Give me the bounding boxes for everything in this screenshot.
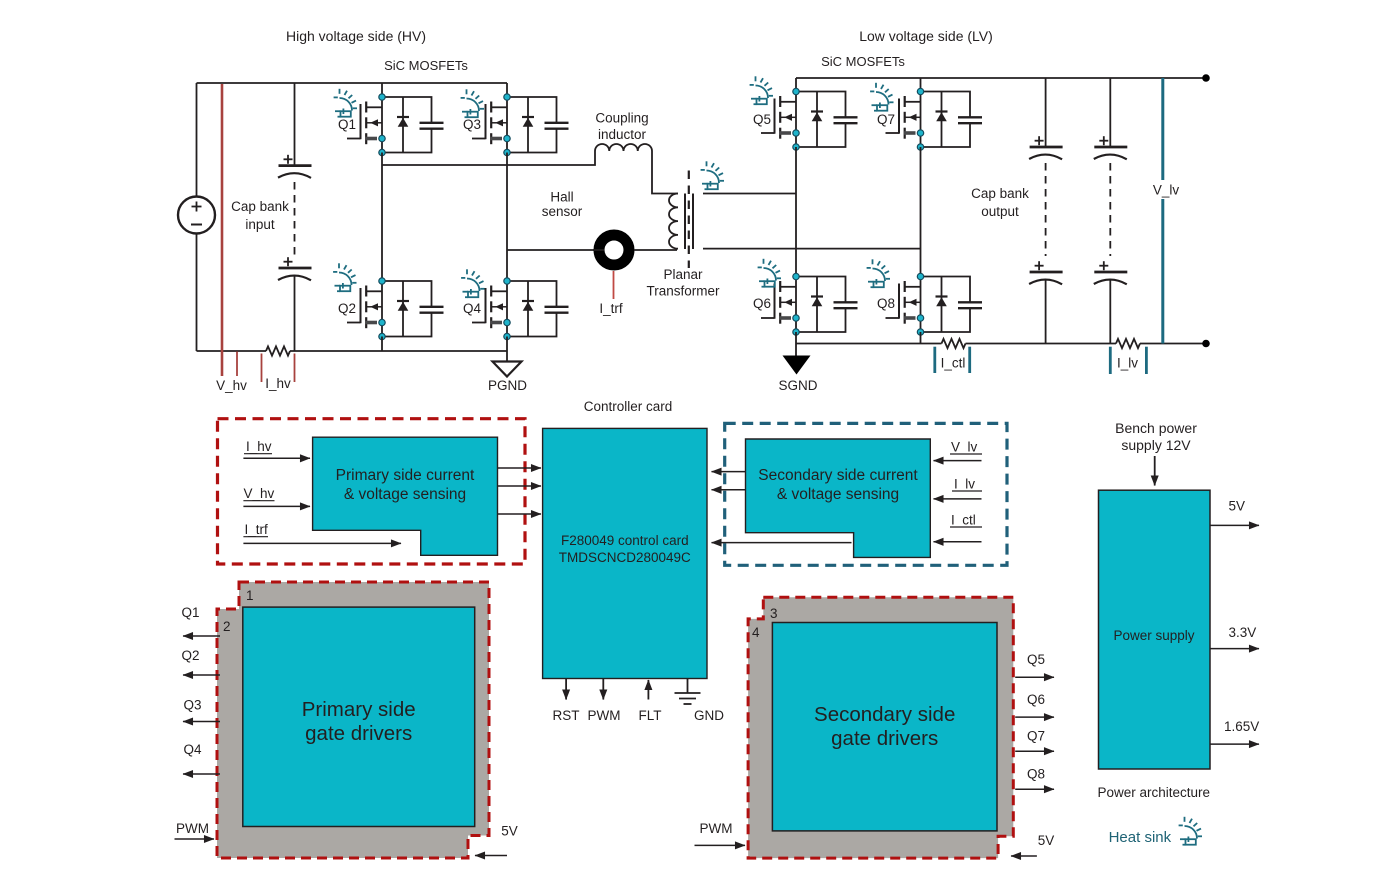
svg-text:V_lv: V_lv	[1153, 183, 1180, 198]
wire source bottom lead	[196, 234, 198, 352]
heat sink icon transformer	[701, 161, 724, 189]
svg-text:Q4: Q4	[463, 301, 482, 316]
wire cap output branch1 bottom lead	[1045, 279, 1047, 344]
transistor Q7	[886, 88, 983, 150]
svg-text:gate drivers: gate drivers	[831, 727, 938, 750]
svg-text:Controller card: Controller card	[584, 399, 673, 414]
block secondary side gate drivers	[772, 623, 997, 831]
transistor Q6	[761, 273, 858, 335]
svg-text:Transformer: Transformer	[646, 284, 720, 299]
svg-text:Q7: Q7	[1027, 729, 1045, 744]
heat sink icon Q4	[461, 269, 484, 297]
label V_lv	[1148, 180, 1185, 199]
capacitor C_in1	[278, 155, 312, 178]
wire HV bottom rail right of shunt	[290, 350, 507, 352]
label I_hv input	[244, 439, 272, 454]
svg-text:gate drivers: gate drivers	[305, 722, 412, 745]
wire secondary sensing output arrow 2	[712, 489, 746, 491]
svg-text:Q3: Q3	[463, 117, 481, 132]
pin FLT	[639, 680, 662, 723]
transistor Q5	[761, 88, 858, 150]
svg-text:Primary side: Primary side	[302, 698, 416, 721]
svg-text:5V: 5V	[1229, 499, 1246, 514]
wire primary sensing output arrow 3	[498, 513, 542, 515]
heat sink icon Q5	[750, 76, 773, 104]
wire secondary bottom	[703, 248, 921, 250]
wire cap bank input bottom lead	[294, 275, 296, 351]
pin PWM input secondary	[695, 821, 746, 845]
node V_hv return tap (red)	[236, 352, 238, 377]
node I_hv tap left (red)	[261, 354, 263, 383]
svg-text:Q8: Q8	[877, 296, 895, 311]
capacitor cap bank input top lead	[294, 83, 296, 165]
wire I_hv input arrow	[243, 457, 310, 459]
pin Q2 gate output	[181, 648, 220, 675]
wire hall to bottom wire left	[594, 249, 604, 251]
svg-text:I_ctl: I_ctl	[941, 356, 966, 371]
svg-text:I_hv: I_hv	[246, 439, 272, 454]
svg-text:Q4: Q4	[183, 742, 202, 757]
pin 5V input secondary	[1011, 833, 1054, 856]
svg-text:Q5: Q5	[1027, 652, 1045, 667]
svg-text:& voltage sensing: & voltage sensing	[344, 486, 466, 503]
block primary side current and voltage sensing	[313, 437, 498, 555]
svg-text:Planar: Planar	[663, 267, 703, 282]
boundary secondary sensing (blue dashed)	[725, 423, 1007, 565]
svg-text:Secondary side current: Secondary side current	[758, 467, 918, 484]
node LV bottom terminal dot	[1202, 340, 1210, 348]
svg-text:& voltage sensing: & voltage sensing	[777, 486, 899, 503]
svg-text:5V: 5V	[1038, 833, 1055, 848]
svg-text:SiC MOSFETs: SiC MOSFETs	[384, 58, 468, 73]
svg-text:Power architecture: Power architecture	[1098, 785, 1211, 800]
wire V_lv input arrow	[934, 460, 982, 462]
pin 5V input primary	[475, 824, 518, 856]
wire HV bridge midpoint to coupling inductor	[382, 151, 595, 165]
pin PWM	[588, 679, 621, 723]
svg-text:Cap bank: Cap bank	[231, 199, 289, 214]
svg-text:1.65V: 1.65V	[1224, 719, 1259, 734]
heat sink icon Q2	[333, 263, 356, 291]
node I_lv tap left (teal)	[1109, 347, 1112, 374]
svg-text:High voltage side (HV): High voltage side (HV)	[286, 28, 426, 44]
svg-text:Q2: Q2	[181, 648, 199, 663]
wire I_lv input arrow	[934, 498, 982, 500]
svg-text:PWM: PWM	[588, 708, 621, 723]
wire bench supply arrow	[1154, 456, 1156, 486]
svg-text:5V: 5V	[501, 824, 518, 839]
wire LV bottom rail middle	[966, 343, 1117, 345]
svg-text:I_ctl: I_ctl	[951, 513, 976, 528]
wire I_ctl input arrow	[934, 541, 982, 543]
svg-text:Q6: Q6	[1027, 692, 1045, 707]
svg-text:sensor: sensor	[542, 204, 583, 219]
transistor Q3	[472, 94, 569, 156]
svg-text:FLT: FLT	[639, 708, 662, 723]
node I_ctl tap right (teal)	[968, 347, 971, 373]
pin 1.65V output	[1210, 719, 1259, 744]
wire LV top rail	[796, 77, 1206, 79]
svg-text:Secondary side: Secondary side	[814, 703, 955, 726]
pin Q5 gate output	[1015, 652, 1054, 677]
capacitor C_o2	[1029, 261, 1063, 284]
pin Q3 gate output	[183, 698, 220, 722]
svg-text:PWM: PWM	[700, 821, 733, 836]
heat sink icon Q3	[461, 89, 484, 117]
transistor Q4	[472, 278, 569, 340]
capacitor C_o4	[1094, 261, 1128, 284]
svg-text:Q5: Q5	[753, 112, 771, 127]
svg-text:output: output	[981, 204, 1019, 219]
wire primary sensing output arrow 2	[498, 485, 542, 487]
pin Q1 gate output	[181, 605, 220, 636]
resistor I_lv shunt	[1116, 339, 1140, 348]
block secondary side current and voltage sensing	[746, 439, 931, 557]
wire Q8 source to rail	[920, 332, 922, 344]
wire Q7-Q8 leg	[920, 147, 922, 277]
pin Q6 gate output	[1015, 692, 1054, 717]
capacitor cap bank output branch1 top lead	[1045, 78, 1047, 147]
svg-text:I_trf: I_trf	[245, 522, 269, 537]
svg-text:Coupling: Coupling	[595, 111, 648, 126]
node LV top terminal dot	[1202, 74, 1210, 82]
svg-text:TMDSCNCD280049C: TMDSCNCD280049C	[559, 550, 691, 565]
boundary secondary gate drivers (red dashed)	[748, 597, 1013, 858]
label I_ctl input	[950, 513, 982, 528]
wire LV bottom rail right	[1140, 343, 1206, 345]
wire I_trf input arrow	[243, 542, 401, 544]
wire cap output branch2 dashed	[1109, 163, 1111, 256]
wire Q4 source to rail	[506, 337, 508, 352]
heat sink icon Q7	[870, 83, 893, 111]
node V_lv sense line (teal)	[1161, 78, 1164, 344]
wire secondary sensing output arrow 3	[712, 542, 852, 544]
block power supply	[1099, 490, 1211, 769]
block primary side gate drivers	[243, 607, 475, 826]
sensor hall (toroid)	[599, 235, 629, 265]
svg-text:V_hv: V_hv	[244, 486, 275, 501]
svg-text:SGND: SGND	[778, 378, 817, 393]
svg-text:Hall: Hall	[550, 190, 573, 205]
pin 5V output	[1210, 499, 1259, 526]
label V_hv input	[243, 486, 274, 501]
pin RST	[553, 679, 580, 723]
wire cap output branch1 dashed	[1045, 163, 1047, 256]
svg-text:I_lv: I_lv	[1117, 356, 1138, 371]
wire Q1 drain stub	[381, 83, 383, 97]
svg-text:Power supply: Power supply	[1113, 628, 1194, 643]
wire source top lead	[196, 83, 198, 197]
resistor I_hv shunt	[266, 346, 290, 355]
svg-text:I_hv: I_hv	[265, 376, 291, 391]
heat sink icon Q8	[867, 259, 890, 287]
svg-text:Bench power: Bench power	[1115, 420, 1197, 436]
label V_lv input	[950, 440, 982, 455]
transistor Q8	[886, 273, 983, 335]
board primary gate drivers card stack	[217, 582, 489, 858]
label I_lv input	[952, 477, 982, 492]
svg-text:I_trf: I_trf	[599, 301, 623, 316]
ground SGND	[783, 344, 811, 375]
svg-text:Cap bank: Cap bank	[971, 186, 1029, 201]
wire V_hv input arrow	[243, 505, 310, 507]
transformer T1 primary winding	[669, 194, 678, 249]
wire secondary sensing output arrow 1	[712, 471, 746, 473]
wire Q6 source to rail	[795, 332, 797, 344]
svg-text:Low voltage side (LV): Low voltage side (LV)	[859, 28, 993, 44]
svg-text:Heat sink: Heat sink	[1109, 829, 1172, 846]
svg-text:Q6: Q6	[753, 296, 771, 311]
svg-text:Q1: Q1	[181, 605, 199, 620]
wire Q7 drain stub	[920, 78, 922, 92]
wire primary sensing output arrow 1	[498, 467, 542, 469]
svg-text:4: 4	[752, 625, 760, 640]
svg-text:2: 2	[223, 619, 231, 634]
wire Q2 source to rail	[381, 337, 383, 352]
wire HV top rail	[197, 82, 508, 84]
node I_lv tap right (teal)	[1145, 347, 1148, 374]
svg-text:inductor: inductor	[598, 127, 647, 142]
label I_trf input	[243, 522, 268, 537]
ground GND pin	[675, 679, 725, 723]
svg-text:1: 1	[246, 588, 254, 603]
wire Q5 drain stub	[795, 78, 797, 92]
pin PWM input primary	[175, 821, 215, 839]
svg-text:PWM: PWM	[176, 821, 209, 836]
svg-text:Q8: Q8	[1027, 767, 1045, 782]
node I_ctl tap left (teal)	[933, 347, 936, 373]
wire inductor to transformer primary top	[652, 151, 678, 194]
node I_trf tap (red)	[613, 271, 615, 299]
svg-text:3: 3	[770, 606, 778, 621]
svg-text:input: input	[245, 217, 275, 232]
resistor I_ctl shunt	[942, 339, 966, 348]
wire LV bottom rail left	[796, 343, 942, 345]
node I_hv tap right (red)	[294, 354, 296, 383]
pin Q8 gate output	[1015, 767, 1054, 790]
heat sink icon Q6	[758, 259, 781, 287]
svg-text:PGND: PGND	[488, 378, 527, 393]
wire secondary top	[703, 193, 796, 195]
transformer T1 core right bar	[692, 194, 694, 250]
wire cap output branch2 bottom lead	[1109, 279, 1111, 344]
svg-text:V_hv: V_hv	[216, 378, 247, 393]
voltage source V1	[178, 197, 215, 234]
transistor Q2	[347, 278, 444, 340]
svg-text:V_lv: V_lv	[951, 440, 978, 455]
legend Heat sink	[1109, 817, 1202, 846]
wire Q1-Q2 leg	[381, 153, 383, 282]
svg-text:Primary side current: Primary side current	[336, 467, 475, 484]
wire Q3 drain stub	[506, 83, 508, 97]
wire hall sensor to transformer primary bottom	[634, 249, 677, 251]
ground PGND	[493, 351, 522, 377]
transistor Q1	[347, 94, 444, 156]
svg-text:Q2: Q2	[338, 301, 356, 316]
capacitor C_o1	[1029, 136, 1063, 159]
boundary primary gate drivers (red dashed)	[217, 582, 489, 858]
wire HV bridge lower midpoint to hall sensor	[507, 249, 594, 251]
svg-text:GND: GND	[694, 708, 724, 723]
boundary primary sensing (red dashed)	[218, 419, 526, 564]
heat sink icon Q1	[334, 89, 357, 117]
svg-text:F280049 control card: F280049 control card	[561, 533, 689, 548]
wire Q3-Q4 leg	[506, 153, 508, 282]
wire cap bank input dashed middle	[294, 182, 296, 256]
capacitor cap bank output branch2 top lead	[1109, 78, 1111, 147]
svg-text:I_lv: I_lv	[954, 477, 975, 492]
pin Q7 gate output	[1015, 729, 1054, 752]
inductor L1 coupling	[595, 144, 652, 151]
pin 3.3V output	[1210, 625, 1259, 649]
svg-text:Q3: Q3	[183, 698, 201, 713]
transformer T1 core left bar	[684, 194, 686, 250]
wire Q5-Q6 leg	[795, 147, 797, 277]
capacitor C_in2	[278, 257, 312, 280]
wire HV bottom rail	[197, 350, 267, 352]
board secondary gate drivers card stack	[748, 597, 1013, 858]
pin Q4 gate output	[183, 742, 220, 774]
svg-text:SiC MOSFETs: SiC MOSFETs	[821, 54, 905, 69]
svg-text:supply 12V: supply 12V	[1121, 437, 1191, 453]
svg-text:Q1: Q1	[338, 117, 356, 132]
IC U1 F280049 control card	[543, 428, 707, 678]
transformer T1 dashed axis	[688, 171, 690, 269]
svg-text:RST: RST	[553, 708, 580, 723]
node V_hv sense line (red)	[221, 84, 224, 376]
capacitor C_o3	[1094, 136, 1128, 159]
svg-text:Q7: Q7	[877, 112, 895, 127]
svg-text:3.3V: 3.3V	[1229, 625, 1257, 640]
